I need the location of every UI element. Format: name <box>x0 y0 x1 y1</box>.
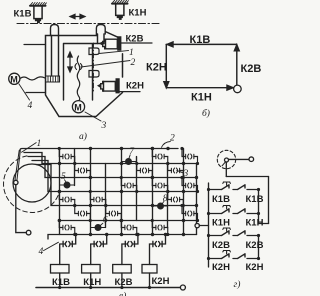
common line terminal circle <box>180 285 185 290</box>
motor M left circle <box>9 73 20 84</box>
screw (wavy shaft) vertical <box>77 56 80 101</box>
master switch pivot circle <box>225 158 229 162</box>
pointer 1 (panel v) <box>22 143 37 153</box>
svg-text:К1В: К1В <box>52 277 70 288</box>
pointer 2 (panel v) <box>162 142 171 148</box>
svg-text:2: 2 <box>131 58 136 68</box>
contact K2N right row4 <box>233 254 259 259</box>
terminal circle (drum) <box>26 230 31 235</box>
svg-text:б): б) <box>202 108 210 119</box>
common bottom line <box>36 287 180 289</box>
wire step to contact column <box>259 223 269 225</box>
plug node 7 <box>125 158 132 165</box>
junction dots g <box>207 188 260 260</box>
contact stub row 2 <box>73 162 185 179</box>
right rail wire <box>268 177 270 224</box>
svg-text:4: 4 <box>39 247 44 257</box>
svg-text:К1В: К1В <box>246 194 264 205</box>
contact stub row 5 <box>73 204 199 222</box>
svg-text:г): г) <box>234 279 241 290</box>
upper cam block <box>89 48 99 55</box>
contact K1V right row1 <box>233 185 259 190</box>
right contact column wire rows3-4 <box>258 236 260 259</box>
staircase wire to bus3 <box>28 157 60 178</box>
relay box K1N <box>82 265 101 274</box>
plug node 6 <box>95 224 102 231</box>
master switch lever and terminal circle <box>229 158 249 160</box>
svg-text:К1Н: К1Н <box>83 277 101 288</box>
contact stub row 4 <box>58 190 185 207</box>
limit switch K1V hatched support <box>30 3 46 6</box>
drum dashed circle (plug path) <box>4 156 59 213</box>
svg-text:К2Н: К2Н <box>126 81 144 92</box>
bus row 1 <box>20 149 178 151</box>
svg-text:К2В: К2В <box>241 63 262 75</box>
ram dash-dot centerline <box>17 23 160 25</box>
wire pivot down <box>225 162 227 177</box>
svg-text:К1Н: К1Н <box>246 218 264 229</box>
svg-text:К1Н: К1Н <box>191 92 212 104</box>
svg-text:К2Н: К2Н <box>152 276 170 287</box>
cycle rectangle top edge with left arrow <box>169 43 237 45</box>
wire from pivot down to terminal <box>16 185 26 233</box>
double arrow (travel) <box>70 14 85 18</box>
limit switch K1N hatched support <box>112 0 128 3</box>
contact stub row 6 <box>58 219 170 236</box>
plug node 8 <box>157 203 164 210</box>
interior: inner wall and platen <box>64 44 105 101</box>
lever arm <box>15 151 20 181</box>
bus row 6 <box>60 220 197 222</box>
right tappet (cam follower) <box>96 25 105 36</box>
svg-text:К2В: К2В <box>126 34 144 45</box>
svg-text:К1Н: К1Н <box>129 8 147 19</box>
drum disc <box>13 164 51 202</box>
wire top horizontal to right rail <box>226 176 268 178</box>
relay box K2V <box>113 265 132 274</box>
cycle rectangle right edge with up arrow <box>236 47 238 85</box>
nut on screw symbol <box>75 64 82 70</box>
contact K2V left row3 <box>209 228 231 236</box>
svg-text:К2Н: К2Н <box>212 262 230 273</box>
svg-text:К1В: К1В <box>14 9 32 20</box>
svg-text:8: 8 <box>163 194 168 204</box>
svg-text:1: 1 <box>129 48 134 58</box>
interior: right tappet rod <box>98 34 105 44</box>
contact stub row 1 <box>58 147 199 165</box>
svg-text:К2В: К2В <box>115 277 133 288</box>
support line left upper <box>24 44 46 46</box>
relay box K2N <box>142 265 157 274</box>
switch K2N plunger and body <box>98 82 116 92</box>
svg-text:К1В: К1В <box>212 194 230 205</box>
svg-text:К2Н: К2Н <box>246 262 264 273</box>
bus row 3 <box>60 177 197 179</box>
node circle bottom-right <box>234 85 242 93</box>
contact K1V left row1 <box>209 182 231 190</box>
staircase wire to bus5 <box>36 165 60 206</box>
junction dots bottom line <box>58 233 167 289</box>
svg-text:М: М <box>10 75 18 85</box>
machine body outline <box>46 32 123 117</box>
bus row 5 <box>60 205 197 207</box>
switch K2N hatched wall <box>116 79 140 93</box>
switch K2V plunger and body <box>100 39 118 49</box>
svg-text:в): в) <box>119 291 126 296</box>
grid vertical wires <box>59 149 61 235</box>
interior: worm coupling hatched box <box>46 76 60 82</box>
contact K1N left row2 <box>209 206 231 214</box>
svg-text:5: 5 <box>61 172 66 182</box>
right contact column wire rows1-2 <box>258 190 260 224</box>
limit switch K1N body <box>116 5 124 20</box>
bottom contact K1V column <box>60 235 76 265</box>
staircase wire to bus2 <box>24 153 60 164</box>
bus row 2 <box>60 163 197 165</box>
cam rod dash-dot <box>93 43 95 92</box>
limit switch K1V body <box>34 7 42 23</box>
svg-text:2: 2 <box>170 134 175 144</box>
lower cam block <box>89 71 99 78</box>
pointer 3 (panel a) <box>85 112 101 121</box>
contact K2V right row3 <box>233 231 259 236</box>
vertical double arrow (platen travel) <box>68 52 72 72</box>
pointer 3 (panel v) <box>177 170 183 172</box>
svg-text:М: М <box>74 103 82 113</box>
support line left <box>26 92 46 94</box>
bus row 7 with left corner <box>48 235 197 240</box>
plug node 5 <box>64 182 71 189</box>
svg-text:К1В: К1В <box>190 34 211 46</box>
interior: left chamber walls <box>52 36 59 77</box>
svg-text:6: 6 <box>103 216 108 226</box>
junction dots matrix <box>58 147 198 236</box>
contact stub row 3 <box>120 176 199 193</box>
pointer 4 (panel v) <box>44 242 59 250</box>
lever tail <box>222 162 225 166</box>
svg-text:1: 1 <box>37 139 42 149</box>
left rail wire <box>208 183 210 267</box>
master switch dashed circle <box>217 150 235 168</box>
flexible shaft wavy horizontal <box>20 77 45 80</box>
svg-text:К2В: К2В <box>246 240 264 251</box>
pointer 1 (panel a) <box>99 51 129 54</box>
staircase wire to bus4 <box>32 161 60 192</box>
svg-text:4: 4 <box>28 101 33 111</box>
lever pivot circle <box>14 180 18 184</box>
bottom contact K2V column <box>122 235 138 265</box>
bottom contact K2N column <box>150 235 166 265</box>
svg-text:3: 3 <box>101 121 107 131</box>
pointer 2 (panel a) <box>81 61 130 68</box>
svg-text:К2Н: К2Н <box>146 62 167 74</box>
svg-text:К2В: К2В <box>212 240 230 251</box>
switch K2V hatched wall <box>118 37 152 51</box>
motor M bottom circle <box>72 101 84 113</box>
contact K1N right row2 <box>233 209 259 214</box>
svg-text:К1Н: К1Н <box>212 218 230 229</box>
contact K2N left row4 <box>209 251 231 259</box>
cycle rectangle bottom edge with right arrow <box>166 87 230 89</box>
bus row 4 <box>60 191 197 193</box>
pointer 4 (panel a) <box>19 84 30 100</box>
cycle rectangle left edge with down arrow <box>165 44 167 85</box>
svg-text:а): а) <box>79 131 87 142</box>
box drop wires to common line <box>60 273 150 288</box>
relay box K1V <box>51 265 70 274</box>
bottom contact K1N column <box>91 235 107 265</box>
left terminal circle and wire <box>195 223 199 227</box>
left tappet (cam follower) <box>51 25 59 37</box>
